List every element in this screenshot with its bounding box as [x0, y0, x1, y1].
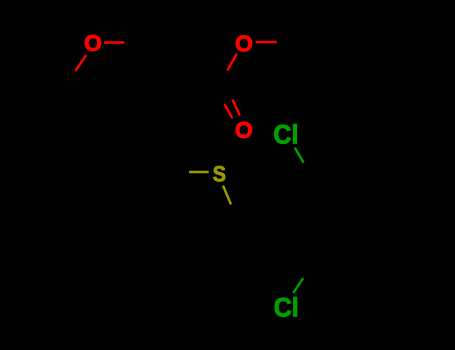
bond O2-CH3 (methyl ester) — [256, 41, 277, 43]
bond Cl2-ring carbon — [293, 278, 303, 293]
bond O1-C (vinyl carbon) — [75, 55, 86, 71]
svg-text:O: O — [84, 30, 102, 56]
bond O1-CH3 (methyl, half visible) — [104, 41, 124, 43]
svg-text:Cl: Cl — [274, 292, 299, 323]
bond C3=O4 second line — [225, 104, 233, 118]
bond S-C (vinyl carbon, left) — [189, 171, 209, 173]
svg-text:O: O — [235, 117, 253, 143]
svg-text:O: O — [235, 30, 253, 56]
bond C3=O4 main line — [233, 100, 240, 116]
bond Cl1-ring carbon — [295, 148, 304, 163]
bond O2-C3 (carbonyl carbon) — [227, 54, 237, 71]
svg-text:S: S — [213, 161, 226, 186]
bond S-CH2 (benzyl) — [223, 186, 231, 205]
svg-text:Cl: Cl — [273, 119, 298, 150]
